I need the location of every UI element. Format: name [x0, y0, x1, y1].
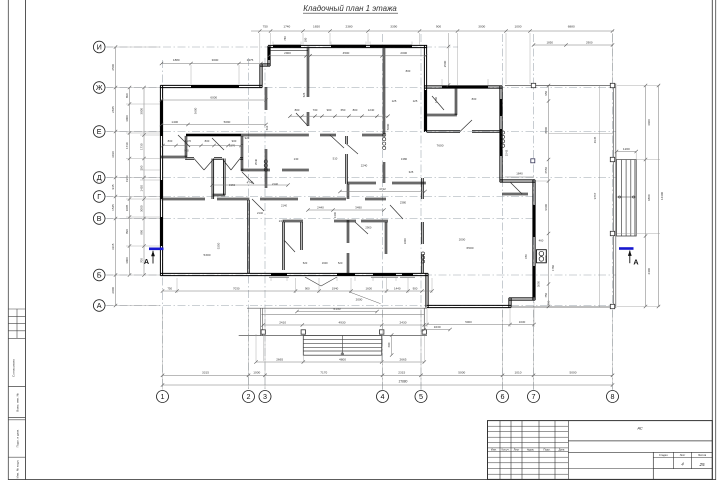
vent stack x384	[383, 133, 386, 136]
svg-text:3000: 3000	[140, 205, 144, 212]
svg-text:3000: 3000	[125, 115, 129, 122]
porch columns	[261, 330, 265, 334]
svg-text:1730: 1730	[140, 143, 144, 150]
outer wall right (axis 7)	[532, 180, 534, 300]
axis circle 4	[377, 391, 389, 403]
svg-text:1880: 1880	[173, 58, 180, 62]
svg-text:1963: 1963	[229, 183, 235, 187]
svg-text:730: 730	[313, 108, 318, 112]
svg-text:5300: 5300	[204, 253, 211, 257]
svg-text:650: 650	[341, 108, 346, 112]
axis circle Г	[93, 191, 105, 203]
svg-text:750: 750	[544, 292, 548, 297]
title block outer	[488, 421, 713, 480]
svg-text:650: 650	[524, 254, 528, 259]
svg-text:750: 750	[167, 286, 172, 290]
svg-text:1650: 1650	[313, 25, 320, 29]
interior closet wall x301	[300, 222, 302, 250]
svg-text:1440: 1440	[394, 286, 401, 290]
outer wall jog near axis 3	[259, 64, 261, 88]
svg-text:1740: 1740	[283, 25, 290, 29]
stairs east arrow	[617, 196, 637, 198]
svg-text:900: 900	[413, 286, 418, 290]
interior wall y170	[241, 168, 270, 170]
svg-text:2000: 2000	[111, 287, 115, 294]
outer wall right (axis 6)	[499, 86, 501, 182]
svg-text:5090: 5090	[224, 120, 231, 124]
interior closet wall x283	[282, 222, 284, 270]
svg-text:2845: 2845	[111, 106, 115, 113]
window top wall 2	[331, 45, 366, 47]
bottom window dim row	[163, 290, 433, 292]
svg-text:6: 6	[501, 392, 505, 401]
porch dim row	[263, 324, 424, 326]
svg-text:890: 890	[125, 93, 129, 98]
svg-text:Изм.: Изм.	[491, 448, 497, 452]
svg-text:800: 800	[295, 108, 300, 112]
axis line Е	[105, 131, 616, 133]
window top-right wall	[442, 86, 488, 89]
svg-text:7170: 7170	[320, 371, 327, 375]
porch steps arrow	[341, 335, 343, 355]
svg-text:2140: 2140	[257, 211, 263, 215]
dim row y210	[308, 209, 384, 211]
svg-text:8800: 8800	[544, 127, 548, 134]
interior wall x242	[240, 136, 242, 171]
door swing hall	[178, 135, 190, 147]
axis line 3	[264, 58, 266, 391]
svg-text:7600: 7600	[437, 144, 444, 148]
bottom dimension row axes	[163, 374, 613, 376]
axis line Ж	[105, 87, 616, 89]
axis line В	[105, 218, 535, 220]
interior wall x348	[346, 184, 348, 199]
dim row y116	[290, 115, 388, 117]
axis circle Ж	[93, 82, 105, 94]
svg-text:1600: 1600	[322, 261, 328, 265]
svg-text:800: 800	[168, 139, 173, 143]
svg-text:1630: 1630	[519, 320, 526, 324]
top dimension row	[251, 30, 614, 32]
svg-text:2000: 2000	[400, 51, 407, 55]
left dimension column 2	[129, 88, 131, 276]
svg-text:Дата: Дата	[559, 448, 565, 452]
svg-text:1375: 1375	[247, 58, 254, 62]
terrace vertical dim col	[548, 86, 550, 307]
window right wall b	[500, 129, 503, 156]
svg-text:3: 3	[263, 392, 267, 401]
svg-text:510: 510	[265, 125, 269, 130]
svg-text:Кладочный план 1 этажа: Кладочный план 1 этажа	[303, 4, 397, 13]
svg-text:750: 750	[263, 25, 268, 29]
interior wall y221 segments	[334, 219, 356, 221]
svg-text:125: 125	[413, 99, 418, 103]
interior wall x186	[184, 136, 186, 157]
svg-text:5: 5	[419, 392, 423, 401]
svg-text:800: 800	[353, 108, 358, 112]
axis line 5	[420, 34, 422, 391]
window edge stubs bottom wall	[270, 277, 272, 281]
window top wall 3	[370, 45, 412, 47]
section marker A right	[619, 249, 639, 267]
title block stadia box	[568, 451, 712, 453]
svg-text:800: 800	[406, 69, 411, 73]
svg-text:5000: 5000	[458, 371, 465, 375]
svg-text:950: 950	[544, 90, 548, 95]
svg-text:900: 900	[305, 286, 310, 290]
window sill 3	[400, 276, 415, 278]
extra door swings left block	[212, 138, 224, 150]
outer wall axis 5 top room	[423, 45, 425, 132]
dim row y63	[162, 63, 262, 65]
dim row over terrace top	[534, 44, 613, 46]
axis circle 8	[607, 391, 619, 403]
svg-text:6880: 6880	[568, 25, 575, 29]
svg-text:130: 130	[294, 157, 299, 161]
svg-text:1630: 1630	[434, 325, 441, 329]
svg-text:2900: 2900	[365, 226, 371, 230]
svg-text:4930: 4930	[339, 320, 346, 324]
svg-text:2140: 2140	[272, 182, 278, 186]
svg-text:А: А	[97, 301, 102, 310]
svg-text:3000: 3000	[478, 25, 485, 29]
axis circle И	[93, 41, 105, 53]
right dim col total	[658, 86, 660, 307]
svg-text:125: 125	[392, 99, 397, 103]
svg-text:№док.: №док.	[527, 449, 535, 452]
svg-text:1840: 1840	[516, 172, 523, 176]
svg-text:1000: 1000	[403, 238, 407, 244]
stairs east dim 1200	[617, 151, 637, 153]
interior wall axis 3 upper	[264, 87, 266, 110]
door swing closet	[284, 240, 295, 252]
svg-text:2: 2	[247, 392, 251, 401]
svg-text:4400: 4400	[647, 119, 651, 126]
svg-text:2430: 2430	[400, 320, 407, 324]
window bottom wall 4	[402, 273, 413, 276]
bottom window dim extensions	[176, 278, 178, 293]
svg-text:Кол.уч.: Кол.уч.	[502, 449, 510, 452]
svg-text:4500: 4500	[343, 51, 350, 55]
window bottom wall 2	[337, 273, 355, 276]
sheet right edge line	[715, 0, 717, 480]
axis line 2	[248, 58, 250, 391]
svg-text:1600: 1600	[366, 286, 373, 290]
svg-text:900: 900	[436, 25, 441, 29]
outer wall jog axis Д right	[500, 179, 535, 181]
window east wall b	[533, 266, 536, 297]
lintel y135	[186, 134, 241, 136]
stairs east treads	[620, 160, 622, 237]
svg-text:Взам. инв. №: Взам. инв. №	[16, 392, 20, 411]
axis circle 7	[528, 391, 540, 403]
svg-text:Д: Д	[97, 173, 102, 182]
dim row y124	[162, 124, 267, 126]
svg-text:945: 945	[111, 184, 115, 189]
interior wall x224	[223, 159, 225, 196]
svg-text:2500: 2500	[111, 64, 115, 71]
svg-text:1545: 1545	[111, 204, 115, 211]
terrace top edge	[505, 85, 613, 87]
dim row y100	[162, 99, 267, 101]
interior wall axis5 lower	[421, 178, 423, 199]
svg-text:2900: 2900	[284, 51, 291, 55]
svg-text:6130: 6130	[334, 307, 341, 311]
svg-text:1730: 1730	[125, 142, 129, 149]
svg-text:900: 900	[327, 108, 332, 112]
window sill 2	[371, 276, 398, 278]
svg-text:2140: 2140	[281, 204, 287, 208]
interior bath top-right walls	[427, 113, 457, 115]
window left wall a	[160, 100, 163, 136]
svg-text:2440: 2440	[279, 219, 286, 223]
door leaf triangles corridor	[194, 159, 204, 171]
vestibule inner wall line	[269, 50, 308, 52]
sheet bottom border	[8, 478, 715, 480]
axis circle А	[93, 300, 105, 312]
axis circle 6	[497, 391, 509, 403]
window bottom wall 3	[373, 273, 396, 276]
svg-text:750: 750	[547, 300, 551, 305]
porch steps	[303, 336, 381, 356]
svg-text:7030: 7030	[233, 286, 240, 290]
interior wall y195 duct	[213, 193, 225, 195]
window edge stubs right top wall	[441, 79, 443, 85]
svg-text:920: 920	[245, 136, 250, 140]
axis line 1	[162, 60, 164, 391]
svg-text:А: А	[633, 258, 638, 267]
interior jog wall y194	[502, 192, 528, 194]
terrace inner dim line	[549, 132, 614, 134]
svg-text:3540: 3540	[254, 158, 258, 165]
svg-text:1380: 1380	[401, 157, 408, 161]
interior wall y135	[186, 133, 309, 135]
interior wall x212	[211, 159, 213, 200]
svg-text:1940: 1940	[332, 286, 339, 290]
right dim col terrace	[599, 86, 601, 307]
svg-text:1420: 1420	[140, 185, 144, 192]
door swing bedroom2	[355, 222, 368, 234]
svg-text:3390: 3390	[390, 25, 397, 29]
terrace bottom edge	[510, 306, 613, 308]
stairs east outline	[617, 160, 637, 237]
interior corridor wall y199	[162, 197, 206, 199]
svg-text:890: 890	[125, 229, 129, 234]
porch sides	[260, 308, 262, 335]
outer wall top-left (axis Ж)	[160, 84, 262, 86]
svg-text:900: 900	[184, 149, 189, 153]
door swing terrace door	[510, 182, 522, 194]
svg-text:И: И	[97, 43, 102, 52]
svg-text:190: 190	[304, 37, 308, 42]
porch extensions	[262, 334, 264, 361]
bottom total dimension	[163, 384, 613, 386]
porch dim 1630	[424, 329, 450, 331]
svg-text:1010: 1010	[515, 371, 522, 375]
svg-text:1570: 1570	[229, 144, 235, 148]
window east wall a	[533, 205, 536, 237]
terrace right edge double line	[612, 84, 614, 309]
svg-text:Согласовано: Согласовано	[12, 359, 16, 377]
svg-text:325: 325	[409, 170, 414, 174]
svg-text:520: 520	[338, 261, 343, 265]
axis circle Д	[93, 172, 105, 184]
axis line Г	[105, 196, 535, 198]
svg-text:8: 8	[611, 392, 615, 401]
svg-text:1760: 1760	[551, 265, 555, 271]
interior wall x308	[306, 47, 308, 98]
stove symbol	[537, 250, 547, 263]
interior wall x346 upper	[345, 136, 347, 144]
svg-text:1570: 1570	[185, 139, 192, 143]
svg-text:9767: 9767	[593, 192, 597, 199]
terrace marker flag	[531, 159, 535, 163]
door swing bath top-right	[432, 96, 444, 110]
axis circle 5	[415, 391, 427, 403]
svg-text:2665: 2665	[400, 357, 407, 361]
svg-text:2000: 2000	[356, 298, 363, 302]
svg-text:АС: АС	[636, 426, 642, 431]
svg-text:4945: 4945	[593, 136, 597, 143]
door swing top room	[330, 135, 344, 148]
axis circle 3	[259, 391, 271, 403]
right dim col 4400	[645, 86, 647, 307]
svg-text:890: 890	[140, 229, 144, 234]
svg-text:5250: 5250	[217, 242, 221, 249]
svg-text:3000: 3000	[212, 58, 219, 62]
axis circle Е	[93, 126, 105, 138]
svg-text:1300: 1300	[333, 211, 337, 218]
svg-text:2500: 2500	[443, 60, 447, 67]
outer wall bottom-right jog	[509, 297, 535, 299]
interior wall y183	[347, 181, 376, 183]
left dimension column 3	[143, 88, 145, 276]
dim row y145 left	[163, 145, 241, 147]
axis line Д	[105, 177, 616, 179]
dim ext y63	[190, 65, 192, 84]
bottom extension lines	[162, 310, 164, 389]
svg-text:2300: 2300	[544, 255, 548, 262]
svg-text:6000: 6000	[210, 95, 217, 99]
svg-text:3490: 3490	[355, 205, 362, 209]
svg-text:900: 900	[232, 139, 237, 143]
sheet frame inner left border	[25, 0, 27, 480]
svg-text:14400: 14400	[660, 191, 664, 200]
outer wall top (axis И)	[268, 44, 427, 46]
door swing kitchen	[390, 205, 403, 219]
title block left table horizontals	[488, 425, 569, 427]
window sill 1	[269, 276, 289, 278]
svg-text:2900: 2900	[586, 40, 593, 44]
svg-text:1963: 1963	[125, 175, 129, 182]
outer wall left (axis 1)	[159, 85, 161, 275]
door swing bedroom1	[296, 113, 308, 126]
terrace columns	[531, 83, 535, 87]
svg-text:4400: 4400	[647, 268, 651, 275]
svg-text:В: В	[97, 214, 102, 223]
axis line А	[105, 305, 616, 307]
interior wall y158	[185, 157, 194, 159]
svg-text:Б: Б	[97, 271, 102, 280]
svg-text:А: А	[144, 257, 149, 266]
svg-text:4800: 4800	[647, 194, 651, 201]
interior wall mark axis5	[424, 90, 426, 131]
porch inner slab line	[262, 313, 425, 315]
porch dim 6130	[297, 311, 377, 313]
svg-text:3050: 3050	[537, 280, 541, 287]
svg-text:6500: 6500	[467, 246, 474, 250]
svg-text:9600: 9600	[544, 204, 548, 211]
svg-text:2000: 2000	[459, 238, 466, 242]
title block lower divider	[568, 468, 653, 470]
door swing hall top-right	[460, 120, 472, 132]
left strip small table	[8, 308, 25, 310]
svg-text:3600: 3600	[194, 107, 198, 114]
axis line 6	[502, 34, 504, 391]
svg-text:Листов: Листов	[698, 454, 707, 457]
svg-text:600: 600	[387, 342, 391, 347]
window top wall 1	[273, 45, 301, 47]
axis line Б	[105, 274, 616, 276]
svg-text:5000: 5000	[465, 320, 472, 324]
porch steps dim 600	[391, 335, 393, 355]
top dim extension lines	[259, 33, 261, 64]
axis line 7	[533, 34, 535, 391]
svg-text:2380: 2380	[400, 201, 407, 205]
svg-text:Подп.: Подп.	[544, 448, 551, 452]
interior wall x386	[384, 222, 386, 254]
axis circle 2	[243, 391, 255, 403]
window right wall a	[500, 99, 503, 116]
axis line 8	[612, 34, 614, 391]
dim row y191	[340, 191, 425, 193]
sheet frame left edge line	[7, 0, 9, 480]
svg-text:190: 190	[140, 165, 144, 170]
svg-text:2380: 2380	[346, 25, 353, 29]
interior wall x249 lower	[247, 200, 249, 274]
svg-text:4712: 4712	[379, 187, 386, 191]
svg-text:27880: 27880	[399, 379, 408, 383]
svg-text:5000: 5000	[570, 371, 577, 375]
window edge stubs top wall	[272, 42, 274, 46]
porch front edge	[239, 335, 427, 337]
svg-text:Подп. и дата: Подп. и дата	[16, 429, 20, 447]
svg-text:2440: 2440	[317, 205, 324, 209]
porch back edge	[247, 307, 427, 309]
svg-text:3000: 3000	[140, 108, 144, 115]
leader 2000	[349, 292, 381, 304]
svg-text:800: 800	[205, 139, 210, 143]
svg-text:3315: 3315	[202, 371, 209, 375]
dim row right jog	[427, 324, 534, 326]
window left wall b	[160, 180, 163, 199]
svg-text:3010: 3010	[111, 151, 115, 158]
svg-text:780: 780	[283, 36, 287, 41]
axis circle 1	[157, 391, 169, 403]
svg-text:Г: Г	[97, 192, 101, 201]
svg-text:520: 520	[303, 261, 308, 265]
svg-text:1200: 1200	[623, 147, 630, 151]
svg-text:700: 700	[140, 258, 144, 263]
svg-text:1240: 1240	[368, 108, 375, 112]
svg-text:2665: 2665	[276, 357, 283, 361]
vent stack x503	[501, 131, 504, 134]
dim row y56 mid	[310, 55, 426, 57]
svg-text:1850: 1850	[547, 40, 554, 44]
svg-text:7: 7	[532, 392, 536, 401]
section marker A left	[144, 249, 164, 266]
window jog wall	[268, 47, 270, 61]
